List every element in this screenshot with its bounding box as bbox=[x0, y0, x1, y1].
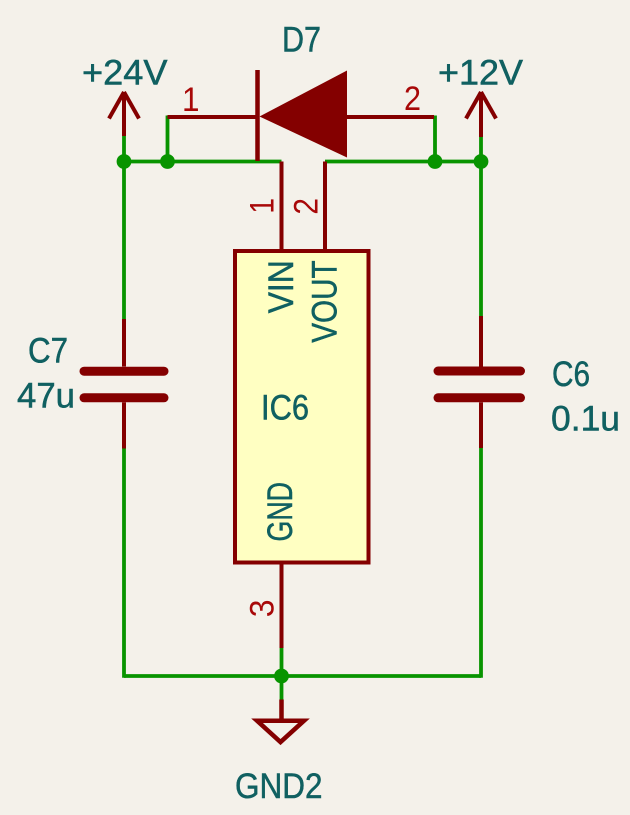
capacitor C7 bbox=[84, 319, 164, 449]
IC pin 2 (VOUT) bbox=[323, 162, 327, 252]
svg-text:C6: C6 bbox=[552, 354, 590, 394]
pin 1 lead bbox=[168, 115, 258, 119]
wire: right bus segment (+12V net) bbox=[325, 160, 481, 164]
IC pin 1 (VIN) bbox=[280, 162, 284, 252]
wire: left vertical upper (bus to C7) bbox=[122, 162, 126, 321]
bottom plate bbox=[84, 393, 164, 402]
svg-text:IC6: IC6 bbox=[261, 387, 309, 427]
ground symbol GND2 bbox=[257, 700, 304, 743]
svg-text:2: 2 bbox=[288, 198, 326, 215]
svg-text:VIN: VIN bbox=[261, 260, 301, 313]
junction dot at diode pin1 drop bbox=[160, 154, 175, 169]
wire: right vertical lower (C6 to bottom bus) bbox=[479, 448, 483, 678]
svg-text:1: 1 bbox=[243, 198, 281, 214]
top plate bbox=[84, 367, 164, 376]
wire: left vertical lower (C7 to bottom bus) bbox=[122, 449, 126, 678]
junction dot at diode pin2 drop bbox=[428, 154, 443, 169]
cathode bar bbox=[255, 70, 260, 161]
top lead bbox=[122, 319, 126, 367]
wire: left bus segment (+24V net) bbox=[124, 160, 282, 164]
svg-text:GND2: GND2 bbox=[235, 766, 323, 806]
junction dot at +24V / C7 corner bbox=[117, 154, 132, 169]
wire: IC GND pin to bus bbox=[280, 648, 284, 676]
wire: bus to ground symbol bbox=[280, 676, 284, 700]
wire: diode pin1 drop bbox=[166, 116, 170, 162]
junction dot at +12V / C6 corner bbox=[474, 154, 489, 169]
svg-text:C7: C7 bbox=[28, 331, 68, 371]
svg-text:3: 3 bbox=[244, 600, 282, 618]
bottom lead bbox=[479, 402, 483, 448]
top plate bbox=[438, 367, 521, 376]
wire: +24V stem to bus bbox=[122, 136, 126, 162]
pin 2 lead bbox=[347, 115, 434, 119]
svg-text:1: 1 bbox=[182, 81, 200, 119]
IC pin 3 (GND) bbox=[280, 563, 284, 649]
junction dot at GND bus bbox=[274, 669, 289, 684]
svg-text:47u: 47u bbox=[17, 376, 75, 416]
wire: bottom bus (GND net) bbox=[124, 674, 481, 678]
wire: diode pin2 drop bbox=[433, 116, 437, 162]
svg-text:+12V: +12V bbox=[438, 52, 523, 92]
svg-text:D7: D7 bbox=[282, 19, 321, 59]
svg-text:GND: GND bbox=[260, 482, 300, 542]
svg-text:0.1u: 0.1u bbox=[551, 399, 620, 439]
capacitor C6 bbox=[438, 316, 521, 448]
wire: +12V stem to bus bbox=[479, 137, 483, 162]
svg-text:2: 2 bbox=[404, 80, 421, 118]
bottom lead bbox=[122, 402, 126, 448]
svg-text:VOUT: VOUT bbox=[305, 260, 345, 343]
wire: right vertical upper (bus to C6) bbox=[479, 162, 483, 318]
power symbol +24V bbox=[109, 92, 139, 136]
IC6 regulator body bbox=[235, 251, 369, 563]
power symbol +12V bbox=[466, 92, 496, 137]
svg-text:+24V: +24V bbox=[82, 52, 168, 92]
diode D7 bbox=[168, 70, 435, 161]
bottom plate bbox=[438, 393, 521, 402]
anode triangle bbox=[260, 71, 348, 158]
top lead bbox=[479, 316, 483, 367]
